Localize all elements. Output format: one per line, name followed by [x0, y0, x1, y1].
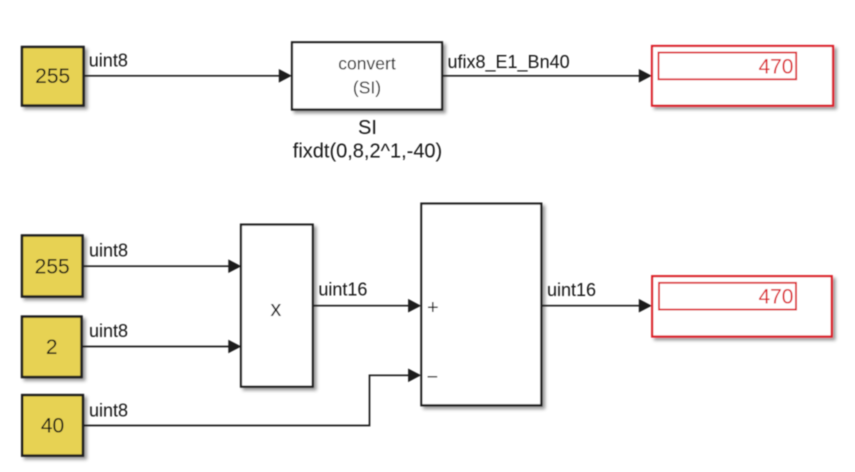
svg-text:255: 255 — [35, 255, 70, 278]
svg-text:+: + — [427, 297, 439, 319]
svg-text:convert: convert — [338, 54, 396, 74]
wire C3 to product — [82, 340, 242, 354]
product block U2 "x" — [241, 225, 313, 387]
display block D2 "470" (bottom) — [652, 276, 832, 336]
wire C1 to convert — [84, 69, 292, 83]
svg-text:40: 40 — [41, 415, 64, 438]
wire C2 to product — [83, 259, 242, 273]
wire product to sum plus input — [313, 299, 421, 313]
svg-text:fixdt(0,8,2^1,-40): fixdt(0,8,2^1,-40) — [293, 141, 442, 163]
constant block C4 "40" — [22, 395, 83, 456]
svg-text:uint16: uint16 — [318, 280, 367, 300]
svg-text:uint8: uint8 — [89, 50, 128, 70]
svg-text:uint8: uint8 — [89, 241, 128, 261]
sum block U3 — [421, 204, 541, 406]
svg-text:(SI): (SI) — [353, 78, 381, 98]
svg-text:2: 2 — [46, 336, 58, 359]
svg-text:uint16: uint16 — [547, 280, 596, 300]
svg-text:470: 470 — [758, 55, 793, 78]
wire C4 to sum minus input — [83, 369, 421, 426]
svg-text:SI: SI — [358, 117, 377, 139]
svg-text:x: x — [270, 296, 281, 321]
svg-text:255: 255 — [35, 65, 70, 88]
svg-text:uint8: uint8 — [89, 321, 128, 341]
wire sum to display D2 — [541, 299, 651, 313]
wire convert to display D1 — [442, 69, 652, 83]
svg-text:ufix8_E1_Bn40: ufix8_E1_Bn40 — [448, 52, 570, 73]
constant block C3 "2" — [22, 317, 82, 377]
display block D1 "470" (top) — [652, 46, 833, 106]
svg-text:470: 470 — [758, 285, 793, 308]
constant block C1 "255" (top) — [22, 47, 84, 106]
constant block C2 "255" (bottom) — [22, 236, 83, 297]
convert block U1 — [292, 42, 442, 109]
svg-text:−: − — [427, 366, 439, 388]
svg-text:uint8: uint8 — [89, 401, 128, 421]
